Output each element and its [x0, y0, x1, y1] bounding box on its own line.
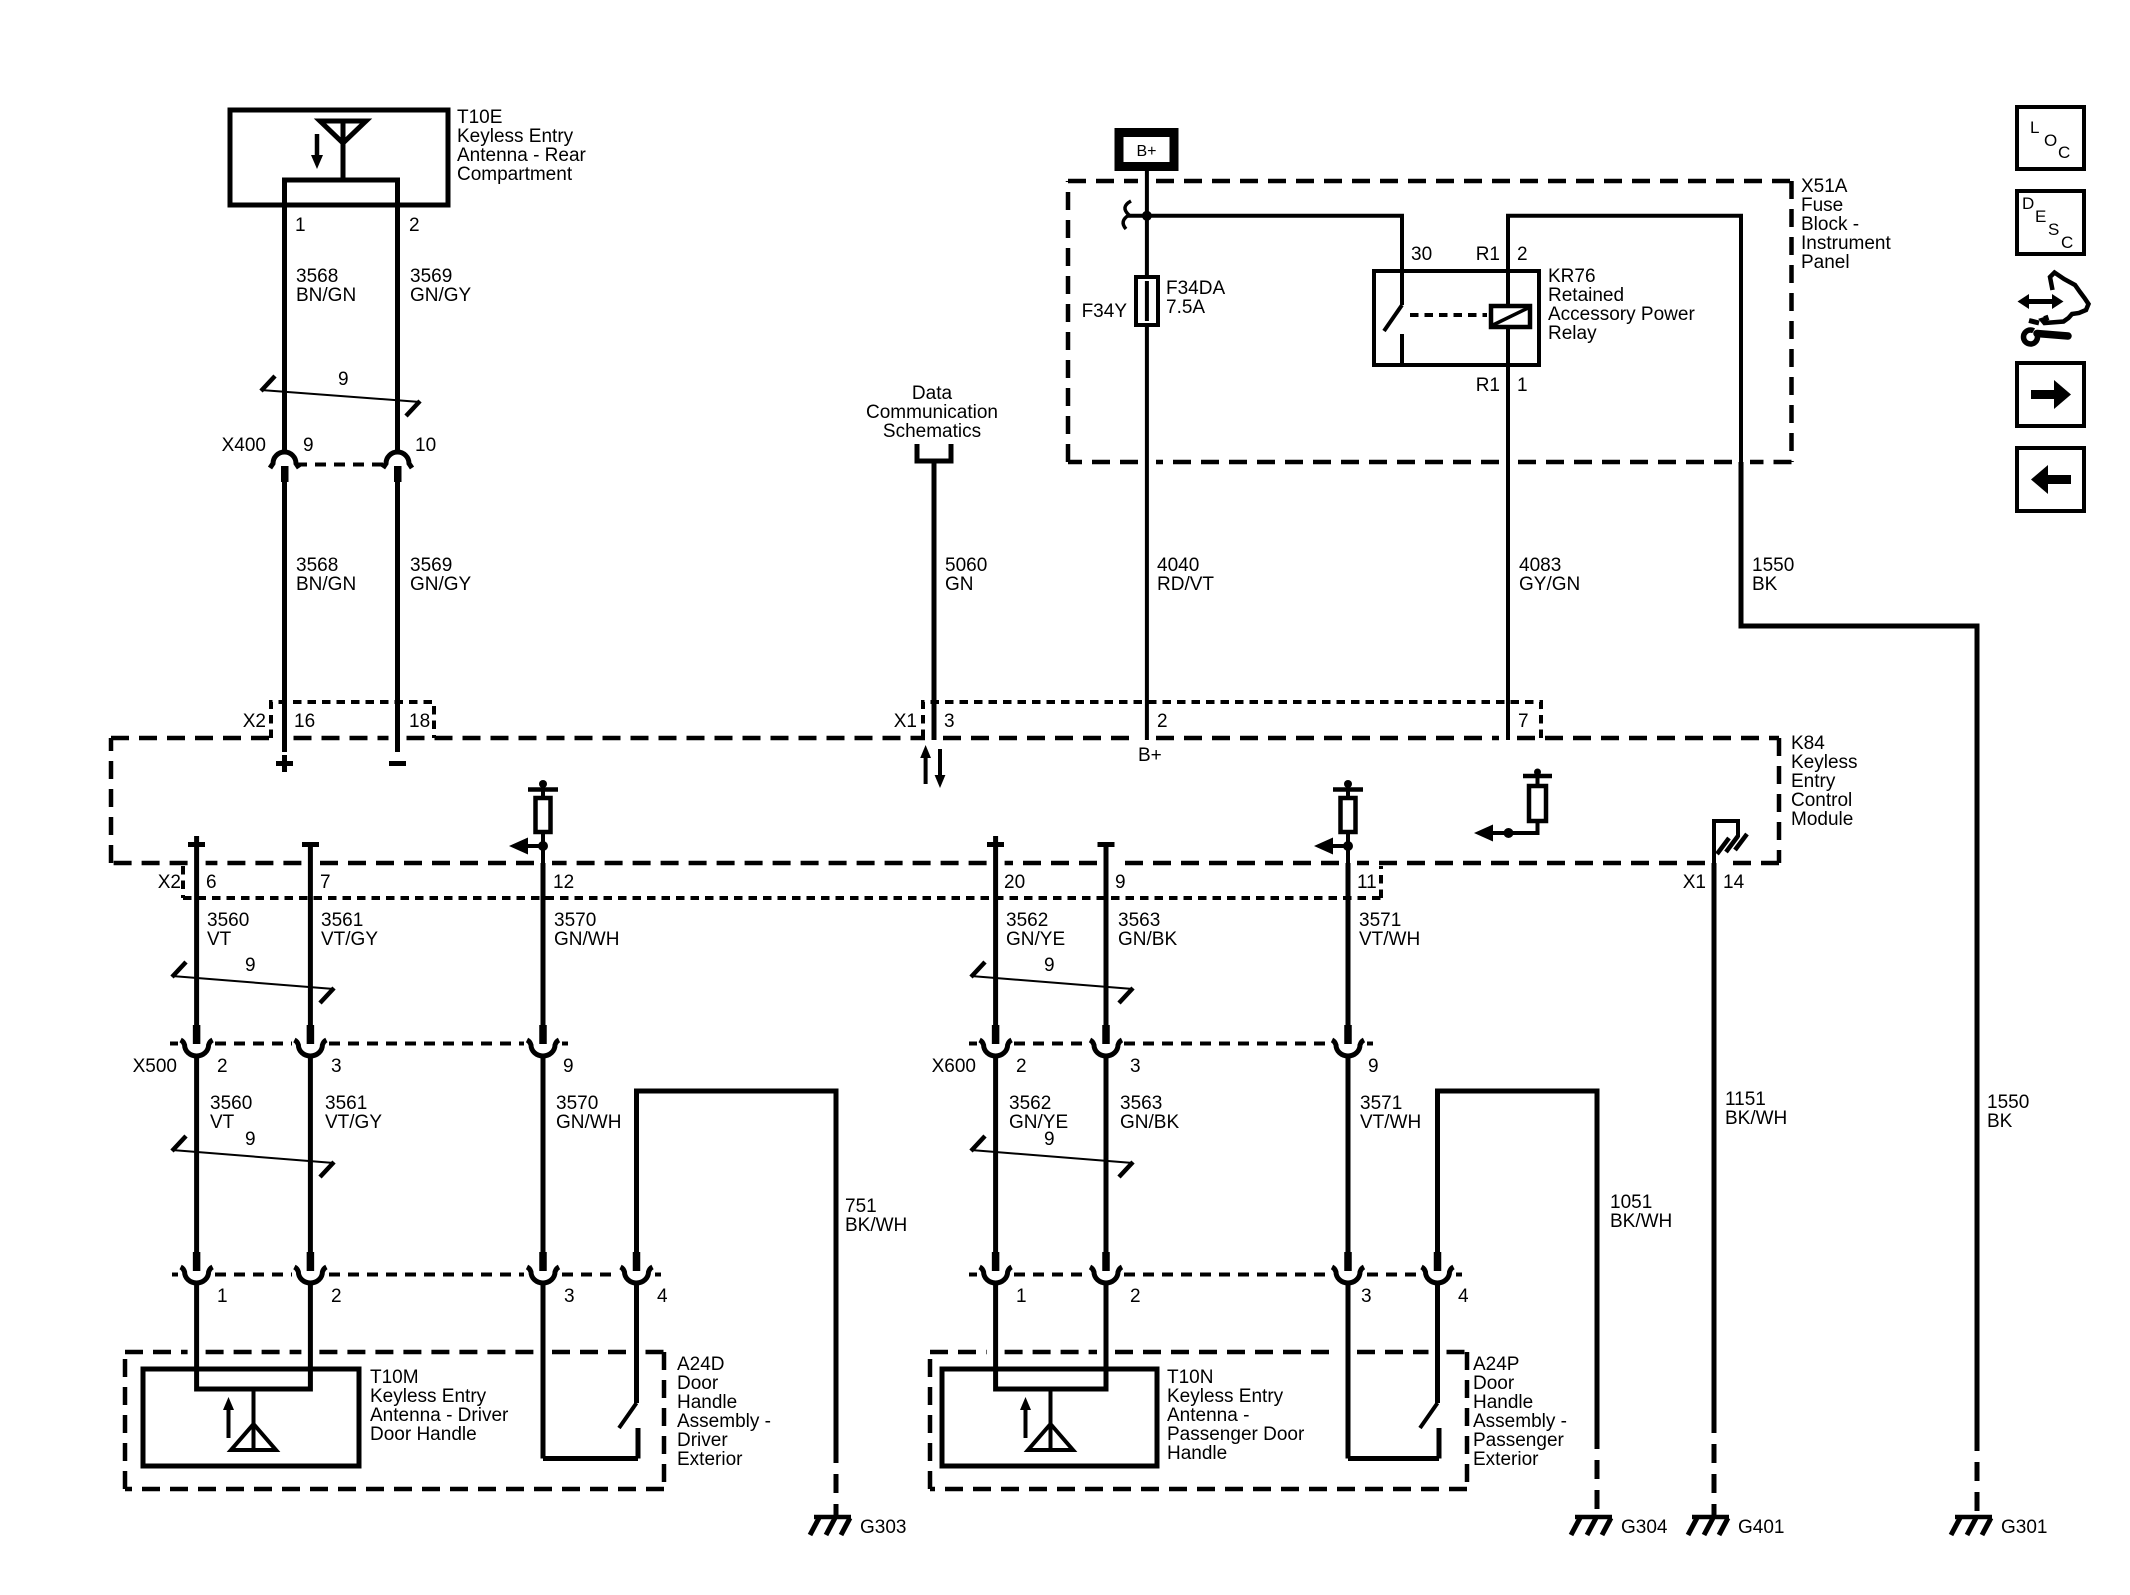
svg-text:Handle: Handle [1473, 1392, 1533, 1413]
svg-text:Keyless Entry: Keyless Entry [370, 1386, 487, 1407]
svg-text:Passenger Door: Passenger Door [1167, 1424, 1305, 1445]
polarity minus mark pin 18 [389, 761, 406, 766]
antenna symbol T10E [311, 121, 366, 180]
svg-text:Handle: Handle [1167, 1443, 1227, 1464]
internal resistor with arrow at pin 11 [1314, 780, 1363, 863]
svg-text:7: 7 [320, 872, 331, 893]
svg-text:10: 10 [415, 435, 436, 456]
svg-text:Keyless Entry: Keyless Entry [457, 126, 574, 147]
svg-text:9: 9 [338, 369, 349, 390]
wire label 3563 GN/BK lower [1120, 1093, 1179, 1133]
svg-text:Panel: Panel [1801, 252, 1850, 273]
svg-text:3562: 3562 [1009, 1093, 1051, 1114]
wire label 3568 BN/GN lower [296, 555, 356, 595]
svg-text:1: 1 [1016, 1286, 1027, 1307]
connector X1 bottom labels (pin 14) [1683, 872, 1745, 893]
svg-text:9: 9 [245, 955, 256, 976]
svg-text:2: 2 [217, 1056, 228, 1077]
relay KR76 box [1374, 271, 1539, 365]
nav icon arrow back (left) [2017, 448, 2084, 511]
svg-text:BN/GN: BN/GN [296, 285, 356, 306]
svg-text:GN/YE: GN/YE [1009, 1112, 1068, 1133]
svg-text:2: 2 [1130, 1286, 1141, 1307]
svg-text:3569: 3569 [410, 555, 452, 576]
svg-text:BK: BK [1987, 1111, 2013, 1132]
svg-text:Assembly -: Assembly - [677, 1411, 771, 1432]
nav icon LOC box [2017, 107, 2084, 169]
svg-text:Driver: Driver [677, 1430, 728, 1451]
svg-text:GN/WH: GN/WH [556, 1112, 621, 1133]
svg-text:3570: 3570 [556, 1093, 598, 1114]
connector X400 dashed tie line [296, 463, 386, 467]
antenna module T10E box [230, 110, 448, 205]
svg-text:7.5A: 7.5A [1166, 297, 1205, 318]
svg-text:20: 20 [1004, 872, 1025, 893]
connector X600 cavity 2 [980, 1025, 1012, 1056]
wire label 1051 BK/WH [1610, 1192, 1672, 1232]
wire 3560 VT from K84 pin 6 [194, 853, 199, 1025]
wire label 3570 GN/WH upper [554, 910, 619, 950]
svg-text:Antenna -: Antenna - [1167, 1405, 1249, 1426]
svg-text:Door: Door [1473, 1373, 1515, 1394]
svg-text:GN: GN [945, 574, 974, 595]
svg-text:4040: 4040 [1157, 555, 1199, 576]
wire label 3569 GN/GY lower [410, 555, 472, 595]
svg-text:Exterior: Exterior [1473, 1449, 1539, 1470]
off-page reference Data Communication Schematics [866, 383, 998, 461]
connector X500 cavity 9 [527, 1025, 559, 1056]
wire label 3563 GN/BK upper [1118, 910, 1177, 950]
wire 3568 BN/GN lower segment [282, 481, 287, 752]
nav icon vehicle with arrow and wrench [2018, 273, 2089, 345]
svg-text:VT: VT [210, 1112, 235, 1133]
svg-text:BK/WH: BK/WH [845, 1215, 907, 1236]
svg-text:18: 18 [409, 711, 430, 732]
door handle connector row dashed tie line (right) [969, 1273, 1462, 1277]
door handle connector cavity 3 (left) [527, 1252, 559, 1283]
svg-text:3561: 3561 [321, 910, 363, 931]
fuse block X51A dashed outline [1068, 181, 1792, 462]
svg-text:1: 1 [217, 1286, 228, 1307]
connector X500 cavity 2 [181, 1025, 213, 1056]
polarity minus mark pin 7b [302, 842, 319, 847]
svg-text:F34DA: F34DA [1166, 278, 1225, 299]
wire label 751 BK/WH [845, 1196, 907, 1236]
door handle connector cavity 1 (left) [181, 1252, 213, 1283]
door handle assembly A24P dashed outline [930, 1352, 1467, 1489]
wire 5060 GN serial data down to K84 pin 3 [932, 461, 937, 740]
svg-text:A24P: A24P [1473, 1354, 1519, 1375]
svg-text:O: O [2044, 131, 2057, 150]
door handle connector cavity 1 (right) [980, 1252, 1012, 1283]
wire 3563 GN/BK middle segment [1104, 1054, 1109, 1252]
svg-text:9: 9 [1368, 1056, 1379, 1077]
svg-text:X600: X600 [932, 1056, 976, 1077]
connector X2 top labels [243, 711, 430, 732]
door handle connector cavity 4 (right) [1422, 1252, 1454, 1283]
twisted pair symbol 9 (right, above X600) [971, 955, 1133, 1003]
svg-text:3561: 3561 [325, 1093, 367, 1114]
svg-text:E: E [2035, 207, 2046, 226]
label T10N Keyless Entry Antenna - Passenger Door Handle [1167, 1367, 1305, 1464]
svg-text:9: 9 [1115, 872, 1126, 893]
svg-text:X2: X2 [243, 711, 266, 732]
svg-text:Relay: Relay [1548, 323, 1597, 344]
connector X500 cavity 3 [294, 1025, 326, 1056]
svg-text:3569: 3569 [410, 266, 452, 287]
svg-text:BK/WH: BK/WH [1610, 1211, 1672, 1232]
junction node at B+ tap [1142, 211, 1152, 221]
connector X600 dashed tie line [969, 1042, 1373, 1046]
svg-text:3570: 3570 [554, 910, 596, 931]
wire junction to relay pin 30 [1128, 216, 1402, 271]
svg-text:9: 9 [303, 435, 314, 456]
crossover hop squiggle at B+ junction [1123, 201, 1131, 229]
antenna symbol T10M [223, 1389, 276, 1452]
connector X2 dotted box (pins 6..11) under K84 [183, 866, 1381, 898]
svg-text:Assembly -: Assembly - [1473, 1411, 1567, 1432]
svg-text:Exterior: Exterior [677, 1449, 743, 1470]
ground G304 [1571, 1517, 1668, 1538]
wire T10M antenna pin 2 [308, 1281, 313, 1392]
wire label 3571 VT/WH upper [1359, 910, 1420, 950]
door handle connector row dashed tie line (left) [172, 1273, 661, 1277]
internal left arrow and junction at pin 7 [1474, 825, 1514, 842]
relay KR76 coil [1491, 306, 1530, 327]
polarity minus mark pin 9 [1098, 842, 1115, 847]
svg-text:VT/WH: VT/WH [1360, 1112, 1421, 1133]
label A24D Door Handle Assembly - Driver Exterior [677, 1354, 771, 1470]
svg-text:L: L [2030, 118, 2039, 137]
svg-text:12: 12 [553, 872, 574, 893]
polarity plus mark pin 20 [987, 836, 1004, 853]
svg-text:BN/GN: BN/GN [296, 574, 356, 595]
svg-text:2: 2 [1157, 711, 1168, 732]
wire 3562 GN/YE middle segment [993, 1054, 998, 1252]
svg-text:Door Handle: Door Handle [370, 1424, 477, 1445]
door handle connector cavity 2 (right) [1090, 1252, 1122, 1283]
svg-text:Module: Module [1791, 809, 1853, 830]
svg-text:Handle: Handle [677, 1392, 737, 1413]
label KR76 Retained Accessory Power Relay [1548, 266, 1695, 344]
svg-text:BK: BK [1752, 574, 1778, 595]
svg-text:T10M: T10M [370, 1367, 419, 1388]
wire T10N antenna pin 1 [993, 1281, 998, 1392]
connector X400 cavity 9 (female hood + male pin) [270, 452, 299, 482]
svg-text:Accessory Power: Accessory Power [1548, 304, 1695, 325]
svg-text:Instrument: Instrument [1801, 233, 1891, 254]
wire label 4040 RD/VT [1157, 555, 1214, 595]
door handle connector labels (left) [217, 1286, 668, 1307]
wire label 3570 GN/WH lower [556, 1093, 621, 1133]
relay KR76 actuation dashed link [1410, 313, 1487, 317]
antenna symbol T10N [1020, 1389, 1073, 1452]
svg-text:6: 6 [206, 872, 217, 893]
wire label 3561 VT/GY upper [321, 910, 378, 950]
twisted pair symbol 9 (right, below X600) [971, 1129, 1133, 1177]
svg-text:GN/WH: GN/WH [554, 929, 619, 950]
svg-text:3563: 3563 [1120, 1093, 1162, 1114]
wire label 3569 GN/GY upper [410, 266, 472, 306]
svg-text:9: 9 [1044, 1129, 1055, 1150]
svg-text:VT/WH: VT/WH [1359, 929, 1420, 950]
svg-text:1: 1 [295, 215, 306, 236]
svg-text:X400: X400 [222, 435, 266, 456]
svg-text:K84: K84 [1791, 733, 1825, 754]
svg-text:VT/GY: VT/GY [321, 929, 378, 950]
wire 3563 GN/BK from K84 pin 9 [1104, 847, 1109, 1025]
svg-text:A24D: A24D [677, 1354, 725, 1375]
battery feed B+ terminal box [1119, 133, 1174, 167]
twisted pair symbol 9 (left, below X500) [172, 1129, 334, 1177]
svg-text:14: 14 [1723, 872, 1745, 893]
svg-text:30: 30 [1411, 244, 1432, 265]
svg-text:X51A: X51A [1801, 176, 1848, 197]
svg-text:D: D [2022, 194, 2034, 213]
svg-text:3563: 3563 [1118, 910, 1160, 931]
connector X600 cavity 3 [1090, 1025, 1122, 1056]
svg-text:RD/VT: RD/VT [1157, 574, 1214, 595]
connector X600 labels [932, 1056, 1379, 1077]
wire relay pin R1-2 to 1550 drop [1508, 216, 1741, 464]
wire label 3571 VT/WH lower [1360, 1093, 1421, 1133]
svg-text:Antenna - Driver: Antenna - Driver [370, 1405, 509, 1426]
svg-text:Communication: Communication [866, 402, 998, 423]
svg-text:VT: VT [207, 929, 232, 950]
wire 3569 GN/GY upper segment [395, 205, 400, 453]
relay pin labels 30, R1 2, R1 1 [1411, 244, 1528, 396]
svg-text:2: 2 [1517, 244, 1528, 265]
svg-text:F34Y: F34Y [1082, 301, 1128, 322]
connector X2 bottom labels [158, 872, 1377, 893]
wire 3568 BN/GN upper segment [282, 205, 287, 453]
svg-text:GN/GY: GN/GY [410, 574, 472, 595]
connector X500 dashed tie line [170, 1042, 568, 1046]
antenna module T10M box [143, 1369, 359, 1466]
svg-text:2: 2 [409, 215, 420, 236]
svg-text:S: S [2048, 220, 2059, 239]
svg-text:3560: 3560 [210, 1093, 252, 1114]
svg-text:3568: 3568 [296, 266, 338, 287]
svg-text:3: 3 [331, 1056, 342, 1077]
fuse labels F34DA 7.5A F34Y [1082, 278, 1226, 322]
label K84 Keyless Entry Control Module [1791, 733, 1858, 830]
wire 751 dashed tail [834, 1444, 839, 1516]
wire label 3568 BN/GN upper [296, 266, 356, 306]
label X51A Fuse Block - Instrument Panel [1801, 176, 1891, 273]
svg-text:1550: 1550 [1987, 1092, 2029, 1113]
svg-text:3: 3 [944, 711, 955, 732]
svg-text:3571: 3571 [1359, 910, 1401, 931]
svg-text:Passenger: Passenger [1473, 1430, 1565, 1451]
svg-text:Control: Control [1791, 790, 1852, 811]
svg-text:9: 9 [245, 1129, 256, 1150]
wire label 3560 VT lower [210, 1093, 252, 1133]
svg-text:G301: G301 [2001, 1517, 2047, 1538]
label T10E Keyless Entry Antenna - Rear Compartment [457, 107, 587, 185]
svg-text:1: 1 [1517, 375, 1528, 396]
wire 3571 VT/WH middle segment [1346, 1054, 1351, 1252]
svg-text:Entry: Entry [1791, 771, 1836, 792]
door handle connector labels (right) [1016, 1286, 1469, 1307]
wire 1550 dashed tail [1975, 1432, 1980, 1516]
svg-text:1550: 1550 [1752, 555, 1794, 576]
serial data arrows at pin 3 [920, 745, 945, 788]
svg-text:3568: 3568 [296, 555, 338, 576]
internal ground at pin X1-14 [1714, 821, 1747, 863]
wire 3569 GN/GY lower segment [395, 481, 400, 752]
twisted pair symbol 9 (left, above X500) [172, 955, 334, 1003]
svg-text:4: 4 [657, 1286, 668, 1307]
ground G303 [810, 1517, 906, 1538]
connector X400 labels [222, 435, 437, 456]
wire 4083 GY/GN relay R1-1 down to K84 pin 7 [1506, 327, 1510, 740]
connector X500 labels [133, 1056, 574, 1077]
module K84 dashed outline [111, 738, 1779, 863]
fuse F34DA element [1136, 216, 1158, 740]
wire label 3560 VT upper [207, 910, 249, 950]
door handle connector cavity 4 (left) [621, 1252, 653, 1283]
svg-text:4083: 4083 [1519, 555, 1561, 576]
wire label 3562 GN/YE lower [1009, 1093, 1068, 1133]
wire 751 BK/WH from door handle pin 4 to G303 [637, 1091, 837, 1444]
connector X2 dotted box (pins 16,18) on K84 top [271, 702, 434, 738]
door handle switch A24D [543, 1281, 638, 1459]
svg-text:3571: 3571 [1360, 1093, 1402, 1114]
antenna module T10N box [942, 1369, 1157, 1466]
svg-text:7: 7 [1518, 711, 1529, 732]
svg-text:GN/BK: GN/BK [1118, 929, 1177, 950]
svg-text:BK/WH: BK/WH [1725, 1108, 1787, 1129]
svg-text:3560: 3560 [207, 910, 249, 931]
svg-text:751: 751 [845, 1196, 877, 1217]
label T10M Keyless Entry Antenna - Driver Door Handle [370, 1367, 509, 1445]
svg-text:GN/GY: GN/GY [410, 285, 472, 306]
svg-text:B+: B+ [1138, 745, 1162, 766]
connector X600 cavity 9 [1332, 1025, 1364, 1056]
svg-text:Compartment: Compartment [457, 164, 573, 185]
internal resistor with arrow at pin 12 [509, 780, 558, 863]
wire label 1550 BK upper [1752, 555, 1794, 595]
svg-text:1051: 1051 [1610, 1192, 1652, 1213]
wire 3571 VT/WH from K84 pin 11 [1346, 863, 1351, 1025]
svg-text:C: C [2061, 233, 2073, 252]
svg-text:GN/BK: GN/BK [1120, 1112, 1179, 1133]
svg-text:Data: Data [912, 383, 953, 404]
wire 1550 BK upper run to right margin [1741, 462, 1977, 1432]
svg-text:9: 9 [563, 1056, 574, 1077]
svg-text:Schematics: Schematics [883, 421, 981, 442]
connector X1 top labels [894, 711, 1529, 732]
svg-text:2: 2 [1016, 1056, 1027, 1077]
svg-text:B+: B+ [1136, 143, 1156, 160]
polarity plus mark pin 6 [188, 836, 205, 853]
wire label 1151 BK/WH [1725, 1089, 1787, 1129]
wire 1151 BK/WH from K84 pin 14 to G401 [1712, 863, 1717, 1414]
internal pull-up resistor at pin 7 [1509, 769, 1553, 834]
wire label 5060 GN [945, 555, 987, 595]
svg-text:C: C [2058, 143, 2070, 162]
connector X1 dotted box (pins 3,2,7) on K84 top [923, 702, 1541, 738]
svg-text:X500: X500 [133, 1056, 177, 1077]
polarity plus mark pin 16 [276, 755, 293, 772]
svg-text:KR76: KR76 [1548, 266, 1596, 287]
ground G301 [1951, 1517, 2047, 1538]
svg-text:1151: 1151 [1725, 1089, 1766, 1110]
svg-text:G401: G401 [1738, 1517, 1784, 1538]
svg-text:R1: R1 [1476, 375, 1500, 396]
svg-text:G304: G304 [1621, 1517, 1668, 1538]
svg-text:X1: X1 [1683, 872, 1706, 893]
svg-text:3: 3 [564, 1286, 575, 1307]
svg-text:5060: 5060 [945, 555, 987, 576]
svg-text:T10E: T10E [457, 107, 502, 128]
svg-text:X2: X2 [158, 872, 181, 893]
svg-text:4: 4 [1458, 1286, 1469, 1307]
wire B+ feed to junction [1145, 171, 1149, 218]
wire label 4083 GY/GN [1519, 555, 1580, 595]
wire 1151 dashed tail [1712, 1414, 1717, 1516]
wire 3560 VT middle segment [194, 1054, 199, 1252]
svg-text:Fuse: Fuse [1801, 195, 1843, 216]
svg-text:T10N: T10N [1167, 1367, 1213, 1388]
wire 3561 VT/GY from K84 pin 7 [308, 847, 313, 1025]
svg-text:Retained: Retained [1548, 285, 1624, 306]
label A24P Door Handle Assembly - Passenger Exterior [1473, 1354, 1567, 1470]
wire T10N antenna pin 2 [1104, 1281, 1109, 1392]
ground G401 [1688, 1517, 1784, 1538]
nav icon DESC box [2017, 191, 2084, 254]
wire T10M antenna pin 1 [194, 1281, 199, 1392]
svg-text:Antenna - Rear: Antenna - Rear [457, 145, 587, 166]
door handle assembly A24D dashed outline [125, 1352, 664, 1489]
wire 3561 VT/GY middle segment [308, 1054, 313, 1252]
door handle connector cavity 3 (right) [1332, 1252, 1364, 1283]
svg-text:Keyless: Keyless [1791, 752, 1858, 773]
svg-text:Keyless Entry: Keyless Entry [1167, 1386, 1284, 1407]
wire 1051 dashed tail [1595, 1430, 1600, 1516]
svg-text:16: 16 [294, 711, 315, 732]
svg-text:3562: 3562 [1006, 910, 1048, 931]
wire 3562 GN/YE from K84 pin 20 [993, 853, 998, 1025]
svg-text:VT/GY: VT/GY [325, 1112, 382, 1133]
wire label 3561 VT/GY lower [325, 1093, 382, 1133]
relay KR76 switch contact [1384, 271, 1402, 365]
svg-text:R1: R1 [1476, 244, 1500, 265]
svg-text:9: 9 [1044, 955, 1055, 976]
connector X400 cavity 10 (female hood + male pin) [383, 452, 412, 482]
svg-text:Door: Door [677, 1373, 719, 1394]
svg-text:2: 2 [331, 1286, 342, 1307]
wire 3570 GN/WH from K84 pin 12 [541, 863, 546, 1025]
wire 1051 BK/WH from door handle pin 4 to G304 [1438, 1091, 1598, 1430]
door handle switch A24P [1348, 1281, 1439, 1459]
svg-text:G303: G303 [860, 1517, 906, 1538]
twisted pair symbol 9 (T10E run) [261, 369, 420, 416]
svg-text:GY/GN: GY/GN [1519, 574, 1580, 595]
svg-text:3: 3 [1361, 1286, 1372, 1307]
wire 3570 GN/WH middle segment [541, 1054, 546, 1252]
svg-text:11: 11 [1357, 872, 1377, 893]
door handle connector cavity 2 (left) [294, 1252, 326, 1283]
svg-text:Block -: Block - [1801, 214, 1859, 235]
wire label 1550 BK lower [1987, 1092, 2029, 1132]
svg-text:X1: X1 [894, 711, 917, 732]
wire label 3562 GN/YE upper [1006, 910, 1065, 950]
svg-text:GN/YE: GN/YE [1006, 929, 1065, 950]
svg-text:3: 3 [1130, 1056, 1141, 1077]
nav icon arrow next (right) [2017, 363, 2084, 426]
